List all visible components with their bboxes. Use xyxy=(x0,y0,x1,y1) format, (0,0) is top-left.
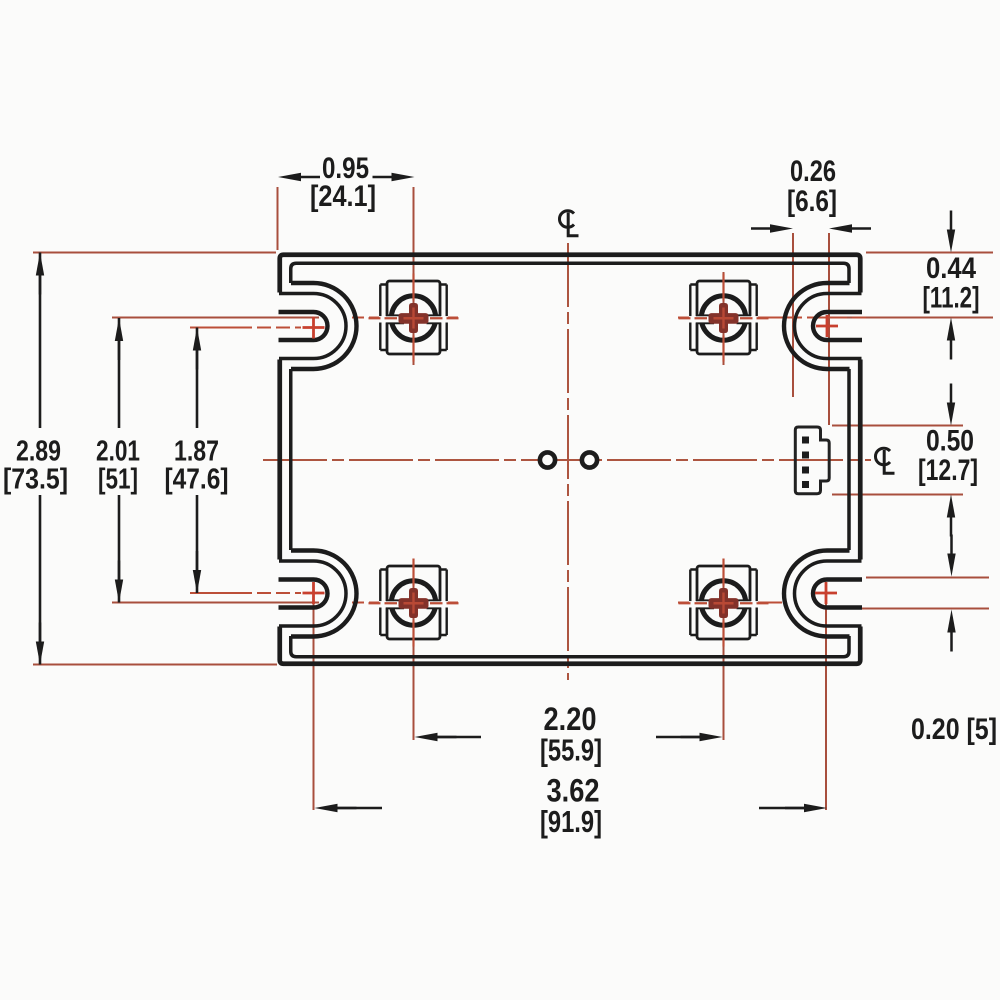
svg-text:[47.6]: [47.6] xyxy=(165,464,229,496)
svg-text:[6.6]: [6.6] xyxy=(787,185,837,218)
svg-text:[91.9]: [91.9] xyxy=(540,805,602,839)
svg-text:[51]: [51] xyxy=(98,464,138,496)
svg-text:0.20 [5]: 0.20 [5] xyxy=(911,713,997,746)
svg-text:2.20: 2.20 xyxy=(544,701,597,737)
svg-text:[12.7]: [12.7] xyxy=(918,454,978,487)
svg-text:[73.5]: [73.5] xyxy=(3,464,68,496)
svg-text:0.50: 0.50 xyxy=(926,425,974,458)
svg-text:0.44: 0.44 xyxy=(926,252,977,285)
svg-text:[11.2]: [11.2] xyxy=(923,282,980,315)
svg-text:0.26: 0.26 xyxy=(790,155,836,188)
svg-text:[24.1]: [24.1] xyxy=(310,180,376,213)
svg-text:[55.9]: [55.9] xyxy=(540,734,602,768)
svg-text:3.62: 3.62 xyxy=(547,773,600,809)
